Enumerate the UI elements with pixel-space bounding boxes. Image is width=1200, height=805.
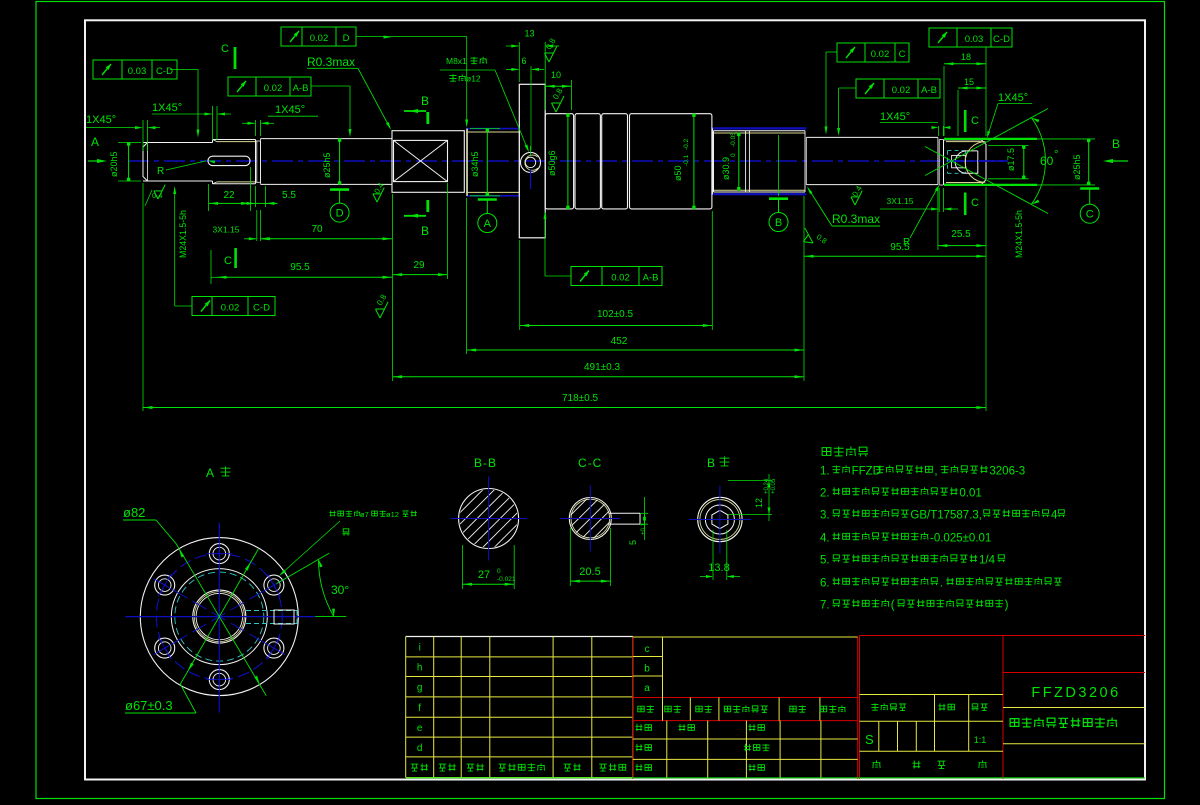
svg-text:B: B (421, 224, 429, 238)
svg-text:A: A (484, 218, 492, 230)
section C-C centerlines (589, 486, 591, 552)
roughness 0.8 at right groove (798, 228, 817, 246)
svg-text:h: h (417, 663, 423, 674)
B view dim 13.8 (712, 530, 714, 580)
svg-text:2.: 2. (820, 488, 830, 500)
svg-text:C: C (1086, 209, 1094, 221)
svg-text:M24X1.5-5h: M24X1.5-5h (178, 210, 188, 258)
B view outer circle (698, 497, 742, 541)
svg-text:20.5: 20.5 (579, 566, 600, 578)
right undercut groove (939, 139, 943, 141)
svg-text:29: 29 (413, 260, 425, 271)
svg-text:R: R (157, 166, 164, 177)
datum A (478, 198, 497, 201)
dim 22 keyway (208, 184, 210, 211)
svg-text:13.8: 13.8 (708, 562, 729, 574)
svg-text:18: 18 (961, 52, 971, 62)
gdt frame 0.03 C-D top left (93, 60, 177, 79)
svg-text:491±0.3: 491±0.3 (584, 362, 621, 373)
gdt frame 0.02 A-B left (228, 77, 311, 96)
svg-text:0.02: 0.02 (310, 33, 329, 44)
drawing title Z axis ballscrew (1003, 707, 1145, 709)
vertical dim o17.5 center hole (988, 145, 1029, 147)
svg-text:ø30.9: ø30.9 (721, 157, 731, 180)
svg-text:1:1: 1:1 (974, 735, 987, 745)
flange diagonal centerline 30deg (154, 579, 284, 654)
ball screw thread zone right (713, 127, 807, 129)
svg-text:C: C (221, 43, 229, 55)
dim 70 (261, 238, 393, 240)
svg-text:60: 60 (1040, 154, 1054, 168)
svg-text:718±0.5: 718±0.5 (562, 393, 599, 404)
svg-text:5: 5 (628, 540, 638, 545)
svg-text:12: 12 (754, 498, 764, 508)
tip center hole white detail (952, 155, 966, 167)
svg-text:B: B (775, 217, 782, 229)
svg-text:7.: 7. (820, 600, 830, 612)
revision table left (406, 636, 633, 638)
vertical dim o20h5 (118, 142, 141, 144)
flange keyway cyan dashed (246, 610, 297, 612)
svg-text:°: ° (1054, 149, 1058, 161)
svg-text:ø7: ø7 (360, 510, 369, 519)
svg-text:0.02: 0.02 (871, 49, 890, 60)
dim 5.5 (255, 186, 257, 207)
section B-B circle (459, 489, 519, 549)
shaft spacer section (575, 114, 600, 209)
section C-C dim 5 (640, 512, 648, 514)
svg-text:-0.025±0.01: -0.025±0.01 (930, 533, 991, 545)
svg-text:ø50: ø50 (673, 165, 683, 181)
shaft o25h5 long section right (806, 136, 938, 138)
svg-text:3206-3: 3206-3 (989, 466, 1025, 478)
60 deg cone line lower (925, 147, 1048, 214)
svg-text:C: C (899, 49, 906, 60)
shaft o25h5 section left (261, 138, 393, 140)
dim 102+-0.5 (520, 325, 713, 327)
B view hexagon (712, 510, 728, 528)
svg-text:): ) (1005, 600, 1009, 612)
svg-text:ø50g6: ø50g6 (547, 150, 557, 176)
svg-text:0.01: 0.01 (959, 488, 981, 500)
scale S row (878, 721, 880, 751)
tip bright centerline segment (948, 160, 1004, 162)
section C-C dim 20.5 (569, 528, 571, 586)
drawing number FFZD3206 (1003, 672, 1145, 674)
svg-text:M24X1.5-5h: M24X1.5-5h (1014, 210, 1024, 258)
dim 718+-0.5 (143, 407, 986, 409)
middle lower rows cells (666, 721, 668, 779)
svg-text:3X1.15: 3X1.15 (887, 196, 914, 206)
roughness 0.4 at o25 left (373, 188, 384, 202)
svg-text:ø67±0.3: ø67±0.3 (125, 698, 173, 713)
flange disc (519, 84, 545, 238)
svg-text:-0.05: -0.05 (730, 132, 737, 147)
svg-text:D: D (343, 33, 350, 44)
svg-text:15: 15 (964, 77, 974, 87)
svg-text:(: ( (891, 600, 895, 612)
roughness 0.8 top flange (545, 46, 558, 62)
svg-text:1.: 1. (820, 466, 830, 478)
tip thread runout yellow arc (965, 142, 985, 183)
svg-text:B-B: B-B (474, 456, 497, 470)
svg-text:c: c (645, 644, 650, 655)
svg-text:ø17.5: ø17.5 (1006, 148, 1016, 171)
revision table header labels (411, 763, 428, 771)
svg-text:C-C: C-C (578, 456, 602, 470)
svg-text:C: C (971, 197, 979, 209)
svg-text:i: i (419, 643, 421, 654)
shaft section with groove (602, 114, 628, 209)
shaft left journal o20h5 (143, 143, 148, 182)
svg-text:D: D (336, 207, 344, 219)
svg-text:25.5: 25.5 (951, 229, 971, 240)
svg-text:C-D: C-D (156, 66, 173, 77)
svg-text:27: 27 (478, 569, 490, 581)
svg-text:1X45°: 1X45° (998, 92, 1028, 104)
tip center hole hidden lines cyan (948, 150, 966, 152)
svg-text:22: 22 (223, 190, 235, 201)
vertical dim o34h5 (470, 128, 500, 130)
tip green OD extension lines (944, 138, 1037, 140)
svg-text:A-B: A-B (921, 85, 937, 96)
flange hub circle (171, 569, 267, 665)
svg-text:-0.2: -0.2 (683, 138, 690, 150)
flange bolt holes 6x (209, 544, 229, 564)
svg-text:A: A (91, 135, 99, 149)
svg-text:d: d (417, 743, 423, 754)
svg-text:1X45°: 1X45° (152, 102, 182, 114)
svg-text:C: C (224, 255, 232, 267)
M24 threaded tip (944, 140, 987, 184)
tech requirements title (822, 447, 868, 457)
vertical dim o30.9 screw (738, 133, 740, 190)
svg-text:ø12: ø12 (466, 74, 481, 84)
dim 491+-0.3 (393, 376, 804, 378)
svg-text:0.4: 0.4 (152, 191, 162, 200)
svg-text:ø82: ø82 (123, 505, 145, 520)
svg-text:452: 452 (611, 336, 628, 347)
dim 452 (467, 349, 804, 351)
svg-text:5.: 5. (820, 555, 830, 567)
undercut groove 3x1.15 (256, 140, 261, 142)
svg-text:6: 6 (521, 56, 526, 66)
svg-text:0.03: 0.03 (965, 34, 984, 45)
B view inner circle (705, 505, 734, 534)
svg-text:6.: 6. (820, 578, 830, 590)
shaft centerline (128, 160, 1008, 162)
flange M8 tapped hole (521, 152, 541, 172)
section C-C keyway slot (609, 512, 640, 514)
middle title table (632, 637, 634, 779)
dim 95.5 right (804, 255, 986, 257)
gdt frame 0.02 A-B right (856, 79, 940, 98)
bearing journal o34h5 (467, 128, 520, 130)
flange outer circle (140, 538, 298, 696)
vertical dim o25h5 (339, 139, 341, 185)
svg-text:ø25h5: ø25h5 (322, 152, 332, 178)
B view dim 12 (728, 480, 772, 482)
svg-text:1X45°: 1X45° (880, 111, 910, 123)
flange centerline horizontal (125, 616, 315, 618)
svg-text:FFZD3206: FFZD3206 (1031, 685, 1120, 701)
svg-text:B: B (421, 94, 429, 108)
svg-text:0.02: 0.02 (221, 302, 240, 313)
roughness 0.8 under screw left (376, 302, 389, 318)
svg-text:1X45°: 1X45° (86, 114, 116, 126)
gdt frame 0.02 C right (837, 43, 909, 62)
dim 95.5 left (210, 250, 212, 284)
60 deg cone line upper (925, 109, 1048, 176)
svg-text:4: 4 (1051, 510, 1058, 522)
svg-text:13: 13 (524, 29, 534, 39)
svg-text:3X1.15: 3X1.15 (213, 225, 240, 235)
svg-text:+0.24: +0.24 (764, 478, 770, 494)
svg-text:S: S (865, 732, 874, 747)
60 deg arc (1032, 118, 1046, 204)
svg-text:5.5: 5.5 (282, 190, 296, 201)
svg-text:C: C (971, 115, 979, 127)
gdt frame 0.03 C-D right (929, 28, 1012, 47)
svg-text:C-D: C-D (993, 34, 1010, 45)
svg-text:e: e (417, 723, 423, 734)
datum C far right (1080, 187, 1099, 190)
title block right section (860, 635, 1146, 637)
svg-text:95.5: 95.5 (290, 262, 310, 273)
svg-text:C-D: C-D (253, 302, 270, 313)
ball screw thread zone left outline (392, 131, 464, 193)
svg-text:B: B (707, 456, 715, 470)
shaft o50g6 section (545, 114, 573, 209)
datum B (769, 197, 788, 200)
svg-text:-0.1: -0.1 (683, 154, 690, 166)
section B-B centerlines (488, 477, 490, 561)
dim 29 (447, 183, 449, 279)
svg-text:+0.05: +0.05 (771, 478, 777, 494)
svg-text:0.02: 0.02 (611, 272, 630, 283)
flange bore circles (193, 590, 246, 643)
c b a cells (633, 656, 663, 658)
svg-text:10: 10 (551, 70, 561, 80)
hole pattern callout 6x o7 (329, 510, 360, 516)
shaft o50 wide section (630, 114, 712, 209)
svg-text:30°: 30° (331, 583, 349, 597)
gdt frame 0.02 C-D bottom left (192, 297, 275, 316)
flange centerline vertical (218, 523, 220, 713)
gdt frame 0.02 A-B middle bottom (571, 267, 662, 286)
svg-text:3.: 3. (820, 510, 830, 522)
svg-text:0.02: 0.02 (264, 83, 283, 94)
section B-B dim 27 (461, 545, 463, 589)
svg-text:A-B: A-B (643, 272, 659, 283)
svg-text:A: A (206, 466, 214, 480)
keyway slot on M24 section (208, 156, 250, 165)
svg-text:70: 70 (311, 224, 323, 235)
svg-text:0: 0 (730, 153, 737, 157)
svg-text:102±0.5: 102±0.5 (597, 309, 634, 320)
flange bolt circle dashed blue (156, 554, 282, 680)
middle header row cells (662, 698, 664, 721)
svg-text:0.02: 0.02 (892, 85, 911, 96)
datum D (330, 188, 349, 191)
flange keyway white section (274, 610, 294, 624)
shaft M24 thread section left (213, 139, 256, 141)
B view centerlines (719, 486, 721, 554)
svg-text:GB/T17587.3,: GB/T17587.3, (910, 510, 982, 522)
svg-text:f: f (418, 703, 421, 714)
svg-text:.: . (940, 578, 943, 590)
section C-C circle (569, 498, 611, 540)
ext lines for chain dims (142, 183, 144, 411)
svg-text:1X45°: 1X45° (275, 104, 305, 116)
gdt frame 0.02 D top (281, 27, 356, 46)
svg-text:ø20h5: ø20h5 (109, 151, 119, 177)
svg-text:R0.3max: R0.3max (832, 212, 880, 226)
vertical dim o50 (693, 114, 695, 209)
sheet count row (872, 760, 880, 768)
svg-text:ø25h5: ø25h5 (1072, 154, 1082, 180)
vertical dim o25h5 far right (1088, 139, 1090, 185)
svg-text:1/4: 1/4 (979, 555, 996, 567)
svg-text:b: b (644, 664, 650, 675)
flange cyan pitch circle dashed (175, 572, 264, 661)
stage mark row (860, 694, 1004, 696)
svg-text:R0.3max: R0.3max (307, 55, 355, 69)
svg-text:ø34h5: ø34h5 (470, 151, 480, 177)
svg-text:a: a (644, 683, 650, 694)
svg-text:B: B (1112, 137, 1120, 151)
svg-text:FFZD: FFZD (852, 466, 881, 478)
svg-text:ø12: ø12 (386, 510, 399, 519)
roughness 0.4 right of screw (851, 191, 862, 205)
svg-text:4.: 4. (820, 533, 830, 545)
svg-text:g: g (417, 683, 423, 694)
vertical dim o50g6 (567, 114, 569, 209)
svg-text:-0.021: -0.021 (497, 576, 516, 583)
svg-text:M8x1: M8x1 (446, 56, 467, 66)
roughness 0.4 below left end (154, 185, 165, 199)
svg-text:,: , (934, 466, 937, 478)
svg-text:0.03: 0.03 (128, 66, 147, 77)
table bottom green line (406, 777, 1145, 779)
roughness 0.8 above o50g6 (552, 96, 565, 112)
svg-text:R: R (903, 237, 910, 248)
svg-text:A-B: A-B (293, 83, 309, 94)
ball screw thread X-box (394, 140, 448, 181)
svg-text:+0.1: +0.1 (641, 522, 647, 535)
svg-text:0: 0 (497, 568, 501, 575)
